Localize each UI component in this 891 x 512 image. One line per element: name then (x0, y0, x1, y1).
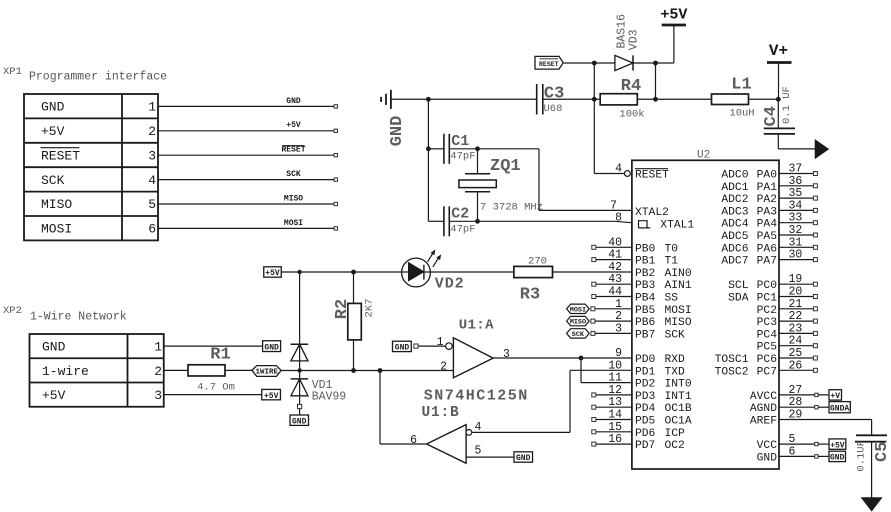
svg-text:42: 42 (608, 261, 622, 274)
svg-text:+5V: +5V (42, 388, 66, 403)
svg-text:T0: T0 (665, 243, 679, 255)
junction U1:B branch (378, 368, 383, 373)
svg-text:ADC3: ADC3 (721, 206, 748, 218)
wire XP1 pin 4 to net SCK (158, 179, 334, 181)
svg-text:+5V: +5V (264, 392, 279, 401)
svg-text:PD6: PD6 (635, 428, 656, 440)
svg-text:PA3: PA3 (757, 206, 778, 218)
svg-text:AGND: AGND (750, 403, 777, 415)
svg-text:RXD: RXD (665, 354, 686, 366)
VD1 pin square (298, 404, 302, 408)
svg-text:ZQ1: ZQ1 (490, 157, 521, 176)
svg-text:PC0: PC0 (757, 280, 778, 292)
svg-text:OC1B: OC1B (665, 403, 692, 415)
svg-text:L1: L1 (731, 76, 751, 95)
svg-text:PD4: PD4 (635, 403, 656, 415)
diode VD1 (BAV99 bottom half) (299, 361, 301, 404)
svg-text:MOSI: MOSI (41, 222, 72, 237)
resistor R2 (353, 272, 355, 303)
svg-text:PA7: PA7 (757, 256, 777, 268)
wire U2 pin 10 to U1:B pin 4 (570, 369, 632, 371)
svg-text:3: 3 (503, 348, 510, 361)
svg-text:7 3728 MHz: 7 3728 MHz (480, 202, 543, 214)
op-amp U1:A (buffer SN74HC125) (453, 338, 493, 378)
svg-text:PD3: PD3 (635, 391, 656, 403)
svg-text:0.1UF: 0.1UF (856, 440, 868, 472)
svg-text:U1:B: U1:B (422, 405, 460, 421)
op-amp U1:B (buffer SN74HC125) (427, 425, 467, 464)
svg-text:1: 1 (154, 340, 162, 355)
svg-text:1-wire: 1-wire (42, 364, 89, 379)
svg-text:TXD: TXD (665, 366, 686, 378)
wire VD3 junction down to R4 (655, 63, 657, 99)
diode VD3 (BAS16) (615, 55, 633, 70)
svg-text:GND: GND (395, 344, 410, 353)
svg-text:+5V: +5V (660, 7, 687, 24)
svg-text:SCK: SCK (572, 331, 585, 339)
svg-text:Programmer interface: Programmer interface (29, 71, 167, 84)
wire XP1 pin 1 to net GND (158, 105, 334, 107)
svg-text:R2: R2 (333, 299, 352, 319)
svg-text:ICP: ICP (665, 428, 686, 440)
svg-text:+5V: +5V (286, 121, 301, 130)
svg-text:6: 6 (148, 222, 156, 237)
svg-text:GND: GND (286, 97, 301, 106)
svg-text:TOSC1: TOSC1 (715, 354, 749, 366)
svg-text:PC2: PC2 (757, 305, 777, 317)
net label +5V (box) right (829, 439, 846, 449)
svg-text:SCL: SCL (728, 280, 749, 292)
svg-text:PB3: PB3 (635, 280, 656, 292)
svg-text:BAV99: BAV99 (312, 391, 347, 404)
wire XTAL2 (538, 149, 540, 211)
svg-text:2: 2 (154, 364, 162, 379)
wire XP1 pin 5 to net MISO (158, 203, 334, 205)
svg-text:PB0: PB0 (635, 243, 656, 255)
svg-text:MISO: MISO (665, 317, 692, 329)
svg-text:U1:A: U1:A (459, 318, 494, 334)
net label GND (box) (263, 341, 281, 352)
svg-text:+5V: +5V (265, 269, 280, 278)
svg-text:RESET: RESET (635, 170, 669, 182)
svg-text:MISO: MISO (41, 197, 72, 212)
svg-text:XTAL1: XTAL1 (660, 219, 694, 231)
svg-text:ADC7: ADC7 (721, 256, 748, 268)
svg-text:1WIRE: 1WIRE (256, 368, 279, 376)
ground symbol (390, 90, 392, 109)
wire XP2 pin 3 to +5V (164, 394, 262, 396)
ground arrow (down) (862, 498, 882, 511)
svg-text:1: 1 (148, 100, 156, 115)
svg-text:270: 270 (528, 256, 547, 268)
svg-text:PC4: PC4 (757, 329, 778, 341)
net label SCK (tag) (567, 329, 590, 338)
resistor R3 (514, 266, 553, 277)
junction R2 bottom (351, 368, 356, 373)
svg-text:PA6: PA6 (757, 243, 778, 255)
svg-text:RESET: RESET (539, 61, 559, 68)
svg-text:SCK: SCK (286, 170, 301, 179)
wire U1:B pin 5 to GND (466, 456, 514, 458)
wire XP2 pin 1 to GND (164, 345, 263, 347)
net label MOSI (tag) (567, 304, 590, 313)
svg-text:SS: SS (665, 293, 679, 305)
svg-text:GND: GND (516, 454, 531, 463)
svg-text:XP1: XP1 (3, 66, 22, 78)
svg-text:T1: T1 (665, 256, 679, 268)
inductor L1 (712, 94, 749, 105)
svg-text:PC7: PC7 (757, 366, 777, 378)
wire 1-wire net to U1:A pin 2 (281, 370, 453, 372)
svg-text:INT1: INT1 (665, 391, 692, 403)
svg-text:8: 8 (615, 212, 622, 225)
wire R1 to 1WIRE tag (225, 369, 252, 371)
off-page arrow (right) (778, 148, 815, 150)
capacitor C4 (777, 99, 779, 128)
crystal glyph at XTAL1 (639, 221, 651, 228)
svg-text:PC1: PC1 (757, 293, 778, 305)
svg-text:VCC: VCC (757, 440, 778, 452)
svg-text:PB1: PB1 (635, 256, 656, 268)
svg-text:0.1 UF: 0.1 UF (781, 86, 793, 124)
svg-text:GND: GND (292, 417, 307, 426)
svg-text:PB5: PB5 (635, 305, 656, 317)
svg-text:2K7: 2K7 (364, 299, 376, 318)
svg-text:5: 5 (148, 197, 156, 212)
net label MISO (tag) (567, 316, 590, 325)
wire U1:A pin 3 to U2 pin 9 (493, 357, 632, 359)
svg-text:C5: C5 (873, 442, 891, 462)
svg-text:SDA: SDA (728, 293, 749, 305)
svg-text:PD5: PD5 (635, 416, 656, 428)
net label GND (box) at U1:A pin 1 (393, 341, 412, 351)
svg-text:+V: +V (830, 392, 840, 401)
net label 1WIRE (tag) (252, 366, 281, 377)
svg-text:1-Wire Network: 1-Wire Network (30, 311, 127, 324)
svg-text:RESET: RESET (41, 148, 80, 163)
svg-text:OC1A: OC1A (665, 416, 692, 428)
svg-text:PA5: PA5 (757, 231, 778, 243)
svg-text:ADC4: ADC4 (721, 219, 748, 231)
svg-text:10uH: 10uH (729, 108, 754, 120)
svg-text:3: 3 (148, 148, 156, 163)
svg-text:GNDA: GNDA (830, 404, 849, 413)
wire R3 to U2 pin 42 (553, 271, 632, 273)
wire ground vertical (427, 99, 429, 221)
svg-text:PC5: PC5 (757, 342, 778, 354)
svg-text:PB7: PB7 (635, 329, 655, 341)
svg-text:SN74HC125N: SN74HC125N (424, 388, 529, 405)
crystal ZQ1 (477, 149, 479, 174)
svg-text:MOSI: MOSI (284, 219, 303, 228)
net label +5V (box) (262, 389, 281, 399)
svg-text:2: 2 (440, 360, 447, 373)
svg-text:GND: GND (757, 452, 778, 464)
svg-text:ADC5: ADC5 (721, 231, 748, 243)
wire XP1 pin 3 to net RESET (158, 154, 334, 156)
svg-text:1: 1 (437, 336, 444, 349)
svg-text:SCK: SCK (665, 329, 686, 341)
capacitor C1 (443, 134, 445, 164)
svg-text:MISO: MISO (284, 194, 303, 203)
net label GND (box) below VD1 (299, 409, 301, 415)
svg-text:PD7: PD7 (635, 440, 655, 452)
svg-text:V+: V+ (769, 42, 788, 60)
svg-text:INT0: INT0 (665, 379, 692, 391)
wire RESET vertical to U2 pin 4 (593, 63, 595, 174)
svg-text:PB6: PB6 (635, 317, 656, 329)
junction VD1/1-wire (297, 368, 301, 372)
svg-text:PA2: PA2 (757, 194, 777, 206)
svg-text:3: 3 (154, 388, 162, 403)
net label GNDA (box) (829, 402, 850, 413)
resistor R1 (188, 365, 225, 376)
capacitor C2 (443, 206, 445, 236)
svg-text:+5V: +5V (830, 441, 845, 450)
net label GND (box) right (829, 451, 846, 461)
wire RESET tag to VD3 (563, 62, 615, 64)
net label RESET (tag) (535, 56, 563, 69)
svg-text:2: 2 (148, 124, 156, 139)
svg-text:4.7 Om: 4.7 Om (197, 381, 235, 393)
svg-text:TOSC2: TOSC2 (715, 366, 749, 378)
svg-text:MOSI: MOSI (570, 306, 586, 314)
svg-text:PD0: PD0 (635, 354, 656, 366)
svg-text:U68: U68 (544, 103, 563, 115)
svg-text:C4: C4 (762, 106, 781, 126)
junction pin9/pin11 (579, 356, 584, 361)
svg-text:4: 4 (148, 173, 156, 188)
svg-text:C3: C3 (544, 85, 564, 104)
net label GND (box) at U1:B pin 5 (514, 452, 533, 462)
svg-text:GND: GND (264, 343, 279, 352)
svg-text:PB4: PB4 (635, 293, 656, 305)
svg-text:VD3: VD3 (627, 29, 640, 50)
wire ground to C3 (391, 98, 537, 100)
svg-text:MOSI: MOSI (665, 305, 692, 317)
IC U2 body (632, 160, 779, 469)
svg-text:PA4: PA4 (757, 219, 778, 231)
svg-text:XP2: XP2 (3, 305, 22, 317)
net label +5V (box) at LED rail (264, 267, 282, 277)
svg-text:PC6: PC6 (757, 354, 778, 366)
wire +5V to LED (281, 271, 402, 273)
diode VD1 (BAV99 top half) (299, 272, 301, 361)
svg-text:C1: C1 (451, 133, 469, 150)
svg-text:GND: GND (388, 116, 407, 147)
connector XP2 (30, 334, 164, 407)
wire XP2 pin 2 to R1 (164, 369, 188, 371)
svg-text:R1: R1 (210, 346, 230, 365)
svg-text:R4: R4 (621, 77, 641, 96)
LED VD2 (402, 271, 514, 273)
svg-text:RESET: RESET (281, 146, 305, 155)
svg-text:PD1: PD1 (635, 366, 656, 378)
svg-text:+5V: +5V (41, 124, 65, 139)
resistor R4 (592, 97, 597, 102)
svg-text:GND: GND (830, 454, 845, 463)
svg-text:100k: 100k (619, 109, 644, 121)
svg-text:U2: U2 (697, 150, 710, 162)
svg-text:ADC0: ADC0 (721, 170, 748, 182)
wire GND to U1:A pin 1 (418, 345, 446, 347)
svg-text:AIN1: AIN1 (665, 280, 692, 292)
svg-text:VD2: VD2 (435, 276, 465, 293)
wire XP1 pin 2 to net +5V (158, 130, 334, 132)
svg-text:C2: C2 (451, 205, 469, 222)
svg-text:GND: GND (41, 100, 65, 115)
wire junction to U2 pin 11 (580, 358, 582, 383)
wire AREF to C5 (779, 419, 872, 421)
svg-text:47pF: 47pF (450, 224, 475, 236)
wire XP1 pin 6 to net MOSI (158, 227, 334, 229)
svg-text:PA0: PA0 (757, 170, 778, 182)
svg-text:R3: R3 (520, 286, 540, 305)
svg-text:AIN0: AIN0 (665, 268, 692, 280)
wire 1-wire branch to U1:B pin 6 (379, 371, 381, 445)
svg-text:5: 5 (475, 445, 482, 458)
svg-text:MISO: MISO (570, 319, 586, 327)
capacitor C3 (536, 84, 538, 115)
connector XP1 (24, 94, 158, 240)
svg-text:PC3: PC3 (757, 317, 778, 329)
svg-text:PB2: PB2 (635, 268, 655, 280)
svg-text:ADC6: ADC6 (721, 243, 748, 255)
svg-text:PD2: PD2 (635, 379, 655, 391)
svg-text:OC2: OC2 (665, 440, 685, 452)
svg-text:AREF: AREF (750, 416, 777, 428)
svg-text:XTAL2: XTAL2 (635, 207, 669, 219)
svg-text:ADC2: ADC2 (721, 194, 748, 206)
svg-text:GND: GND (42, 340, 66, 355)
svg-text:ADC1: ADC1 (721, 182, 748, 194)
svg-text:AVCC: AVCC (750, 391, 777, 403)
capacitor C5 (856, 434, 887, 436)
svg-text:PA1: PA1 (757, 182, 778, 194)
svg-text:47pF: 47pF (450, 151, 475, 163)
svg-text:6: 6 (410, 434, 417, 447)
LED arrows (428, 250, 441, 267)
wire C2 to XTAL1 (449, 220, 615, 222)
svg-text:SCK: SCK (41, 173, 65, 188)
net label +V (box) (829, 390, 842, 400)
